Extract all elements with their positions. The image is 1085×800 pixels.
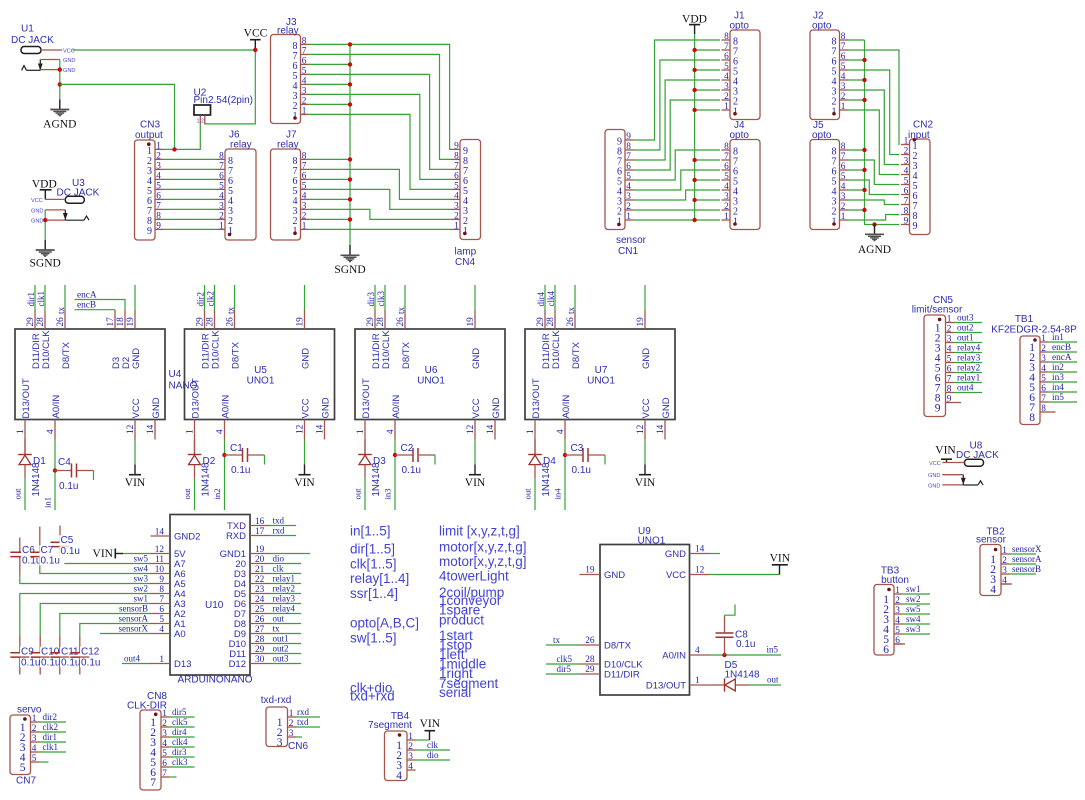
svg-text:3: 3 [156, 161, 161, 171]
mcu U7 pin 12 VCC [636, 398, 652, 439]
svg-text:relay4: relay4 [273, 604, 296, 614]
connector J3 pin 7 [293, 46, 310, 62]
capacitor C7 value label [40, 556, 65, 566]
connector J5 pin 8 [832, 142, 849, 158]
wire CN5 pin 8 net out4 [954, 392, 982, 394]
svg-text:2: 2 [454, 211, 459, 221]
wire J1 pin3 to VDD bus [695, 89, 720, 91]
wire clk5 to U9 pin28 [546, 663, 580, 665]
svg-text:D13/OUT: D13/OUT [531, 378, 542, 418]
svg-text:6: 6 [219, 171, 224, 181]
wire sw5 from C5 [60, 563, 151, 565]
svg-text:5: 5 [904, 177, 909, 187]
svg-text:rxd: rxd [273, 526, 285, 536]
svg-text:GND: GND [31, 219, 43, 225]
connector CN1 pin-1 marker [617, 223, 621, 227]
svg-text:sw1: sw1 [133, 594, 148, 604]
svg-text:8: 8 [1029, 412, 1035, 424]
connector J2 pin 8 [832, 32, 849, 48]
svg-text:motor[x,y,z,t,g]: motor[x,y,z,t,g] [439, 540, 527, 555]
mcu U5 body [185, 329, 335, 420]
connector CN2 pin 4 [901, 167, 918, 183]
mcu U9 pin 28 D10/CLK [580, 655, 644, 671]
svg-text:8: 8 [159, 585, 164, 595]
mcu U10 pin 30 D12 [229, 655, 270, 670]
wire at U6 pin 19 [474, 285, 476, 310]
wire U4 VCC to VIN [134, 440, 136, 465]
connector CN7 pin-1 marker [23, 717, 27, 721]
svg-text:4: 4 [386, 429, 396, 434]
svg-text:0.1u: 0.1u [402, 465, 421, 476]
svg-text:9: 9 [947, 395, 952, 405]
svg-text:25: 25 [255, 605, 265, 615]
svg-text:U10: U10 [205, 600, 224, 611]
svg-text:C3: C3 [571, 443, 584, 454]
wire TB4 pin1 to VIN [416, 739, 430, 741]
power symbol VIN U6 [465, 475, 486, 490]
svg-text:2: 2 [841, 92, 846, 102]
capacitor C7 0.1u [30, 527, 49, 566]
connector J7 pin-1 marker [293, 231, 297, 235]
wire J4 pin4 to CN1 pin3 [634, 190, 721, 200]
wire TB1 pin 6 net in4 [1049, 391, 1078, 393]
svg-text:relay1: relay1 [273, 574, 296, 584]
connector CN4 pin-1 marker [463, 232, 467, 236]
wire TB1 pin 2 net encB [1049, 351, 1078, 353]
wire TB2 pin 1 net sensorX [1010, 553, 1037, 555]
svg-text:dir2: dir2 [196, 292, 206, 307]
mcu U4 pin 18 D2 [116, 310, 132, 369]
svg-text:in5: in5 [1052, 393, 1064, 403]
svg-text:4: 4 [841, 182, 846, 192]
connector J4 pin 6 [722, 162, 739, 178]
wire stub right of C4 [93, 471, 95, 481]
power symbol VIN U7 [635, 475, 656, 490]
svg-text:12: 12 [126, 424, 136, 434]
connector J5 pin 6 [832, 162, 849, 178]
wire CN1 pin1 to J4 pin1 (VDD) [634, 219, 721, 221]
svg-text:1: 1 [733, 217, 738, 228]
wire encB [75, 309, 116, 311]
svg-text:8: 8 [156, 211, 161, 221]
connector CN6 pin 2 [277, 719, 296, 739]
junctions J4 on VDD bus [692, 158, 696, 162]
wire CN5 pin 9 tail [954, 402, 961, 404]
svg-text:txd+rxd: txd+rxd [350, 689, 395, 704]
svg-text:5: 5 [302, 181, 307, 191]
power stem VIN TB4 [429, 731, 431, 740]
wire at U4 pin 28 [44, 285, 46, 310]
svg-text:14: 14 [656, 424, 666, 434]
capacitor C12 0.1u [70, 636, 89, 675]
svg-text:clk3: clk3 [172, 757, 188, 767]
wire rxd at U10 pin17 [270, 535, 296, 537]
mcu U10 pin 11 A7 [151, 555, 186, 570]
wire J2 pin8 to AGND bus [848, 39, 865, 41]
capacitor C4 0.1u [55, 464, 94, 478]
svg-text:3: 3 [277, 737, 283, 749]
connector CN2 pin 5 [901, 177, 918, 193]
wire TB2 pin 3 net sensorB [1010, 573, 1037, 575]
svg-text:4: 4 [302, 191, 307, 201]
svg-text:4: 4 [162, 739, 167, 749]
svg-text:4: 4 [454, 191, 459, 201]
connector J7 relay body [271, 149, 301, 240]
svg-text:5: 5 [20, 762, 26, 774]
mcu U9 pin 1 D13/OUT [646, 676, 710, 692]
wire in3 net at U6 pin4 [394, 440, 396, 511]
wire CN5 pin 7 net relay1 [954, 382, 982, 384]
wire J1 pin2 to CN1 pin6 [634, 100, 721, 170]
wire TB2 pin 2 net sensorA [1010, 563, 1037, 565]
wire out3 at U10 [270, 663, 301, 665]
svg-text:4: 4 [895, 616, 900, 626]
power stem VIN U5 [304, 465, 306, 475]
power symbol VIN U9 [770, 552, 791, 565]
svg-text:3: 3 [895, 606, 900, 616]
wire at U6 pin 26 [404, 285, 406, 310]
wire TB3 pin6 stub [894, 643, 905, 645]
svg-text:2: 2 [302, 211, 307, 221]
dc jack U1 switch contact [22, 60, 43, 71]
svg-text:26: 26 [396, 317, 406, 327]
svg-text:UNO1: UNO1 [587, 376, 615, 387]
mcu U10 pin 26 D8 [234, 615, 270, 630]
svg-text:dio: dio [427, 750, 439, 760]
mcu U10 pin 12 5V [151, 545, 187, 560]
svg-text:sw5: sw5 [906, 604, 921, 614]
svg-text:7: 7 [841, 42, 846, 52]
connector J6 pin 7 [217, 161, 234, 177]
wire CN8 pin 7 stub [170, 776, 177, 778]
svg-text:3: 3 [626, 192, 631, 202]
wire J7 pin6 to SGND bus [309, 178, 351, 180]
svg-text:CN1: CN1 [618, 246, 638, 257]
svg-text:14: 14 [316, 424, 326, 434]
svg-text:opto: opto [812, 130, 832, 141]
svg-text:GND: GND [63, 58, 75, 64]
mcu U4 pin 12 VCC [126, 398, 142, 439]
svg-text:clk1: clk1 [36, 291, 46, 307]
wire VDD bus [694, 34, 696, 220]
svg-text:txd-rxd: txd-rxd [261, 695, 292, 706]
wire J2 pin3 to CN2 pin3 [848, 90, 900, 165]
svg-text:1: 1 [1041, 334, 1046, 344]
svg-text:clk: clk [427, 740, 438, 750]
connector TB2 sensor body [980, 545, 1001, 596]
svg-text:5: 5 [1041, 374, 1046, 384]
connector CN6 pin 3 [277, 729, 296, 749]
svg-text:VIN: VIN [420, 718, 441, 730]
svg-text:3: 3 [302, 86, 307, 96]
wire sw3 from C6 [20, 575, 151, 584]
svg-text:1: 1 [186, 429, 196, 434]
svg-text:U1: U1 [21, 24, 34, 35]
svg-text:C5: C5 [61, 535, 74, 546]
connector CN2 pin 2 [901, 147, 918, 163]
mcu U6 pin 29 D11/DIR [366, 310, 382, 369]
svg-text:VIN: VIN [635, 477, 656, 489]
wire stub right of C2 [434, 455, 436, 465]
svg-text:5: 5 [32, 754, 37, 764]
junctions J7 bus [348, 157, 352, 161]
wire encA [75, 300, 126, 311]
svg-text:clk2: clk2 [43, 722, 59, 732]
connector CN7 servo body [10, 715, 31, 775]
svg-text:4: 4 [724, 182, 729, 192]
connector TB2 pin 2 [990, 556, 1009, 576]
svg-text:1N4148: 1N4148 [541, 463, 552, 497]
svg-text:VCC: VCC [300, 398, 311, 418]
svg-text:opto[A,B,C]: opto[A,B,C] [350, 616, 419, 631]
svg-text:5: 5 [159, 615, 164, 625]
dc jack U1 pin GND upper [40, 59, 60, 61]
svg-text:tx: tx [273, 624, 281, 634]
svg-text:9: 9 [159, 575, 164, 585]
svg-text:in5: in5 [767, 645, 779, 655]
wire CN6 pin 2 net txd [296, 726, 320, 728]
svg-text:D12: D12 [229, 659, 246, 670]
connector CN8 pin 5 [150, 749, 169, 769]
svg-text:0.1u: 0.1u [61, 546, 80, 557]
svg-text:clk[1..5]: clk[1..5] [350, 557, 397, 572]
svg-text:2: 2 [724, 202, 729, 212]
mcu U10 pin 28 D10 [229, 635, 270, 650]
wire J5 pin4 to AGND bus [848, 189, 865, 191]
capacitor C9 0.1u [10, 636, 29, 675]
wire J2 pin4 to AGND bus [848, 79, 865, 81]
svg-text:1: 1 [841, 212, 846, 222]
svg-text:3: 3 [724, 192, 729, 202]
connector J6 relay body [225, 149, 256, 240]
wire J2 pin1 to CN2 pin4 [848, 110, 900, 175]
junction C1 tap [222, 453, 226, 457]
wire J3 pin8 to CN4 pin9 [309, 44, 452, 149]
wire out2 at U10 [270, 653, 301, 655]
svg-text:19: 19 [255, 545, 265, 555]
wire J3 pin5 to CN4 pin7 [309, 74, 452, 169]
diode D4 1N4148 [528, 440, 542, 479]
svg-text:6: 6 [454, 171, 459, 181]
svg-text:2: 2 [289, 719, 294, 729]
svg-text:in1: in1 [1052, 333, 1064, 343]
svg-text:3: 3 [302, 201, 307, 211]
mcu U10 pin 25 D7 [234, 605, 270, 620]
wire AGND branch to CN3 pin1 column [60, 84, 175, 149]
svg-text:4: 4 [216, 429, 226, 434]
svg-text:29: 29 [366, 317, 376, 327]
wire VIN to U10 5V [123, 553, 151, 555]
mcu U10 pin 27 D9 [234, 625, 270, 640]
diode D2 1N4148 [188, 440, 202, 479]
wire at U5 pin 29 [204, 285, 206, 310]
wire CN7 pin 3 net dir1 [39, 741, 66, 743]
wire J3 pin2 to SGND bus [309, 103, 351, 105]
connector CN1 pin 7 [617, 152, 634, 168]
connector CN1 pin 8 [617, 142, 634, 158]
svg-text:C1: C1 [230, 443, 243, 454]
svg-text:6: 6 [162, 759, 167, 769]
svg-text:6: 6 [159, 605, 164, 615]
connector CN1 pin 5 [617, 172, 634, 188]
svg-text:A0: A0 [174, 629, 186, 640]
svg-text:16: 16 [255, 517, 265, 527]
dc jack U1 pin GND lower [40, 69, 60, 71]
connector CN4 pin 5 [452, 181, 469, 197]
svg-text:A0/IN: A0/IN [561, 395, 572, 419]
svg-text:C11: C11 [61, 647, 79, 658]
svg-text:4: 4 [841, 72, 846, 82]
connector CN3 pin 5 [147, 181, 164, 197]
svg-text:sw3: sw3 [906, 624, 921, 634]
power symbol VIN U5 [294, 475, 315, 490]
svg-text:8: 8 [454, 151, 459, 161]
junctions J2 on AGND bus [862, 58, 866, 62]
svg-text:22: 22 [255, 575, 265, 585]
connector TB3 button body [874, 585, 894, 656]
wire TB3 pin 1 net sw1 [903, 593, 931, 595]
svg-text:encB: encB [77, 301, 96, 311]
svg-text:8: 8 [947, 385, 952, 395]
mcu U5 pin 29 D11/DIR [196, 310, 212, 369]
svg-text:1: 1 [841, 102, 846, 112]
wire CN7 pin 4 net clk1 [39, 751, 66, 753]
connector J6 pin-1 marker [228, 233, 232, 237]
svg-text:out4: out4 [957, 384, 974, 394]
connector CN4 lamp body [460, 140, 481, 240]
connector CN1 pin 1 [617, 212, 634, 228]
svg-text:relay: relay [230, 140, 252, 151]
mcu U10 body [170, 515, 250, 676]
wire out net below D4 [534, 479, 536, 510]
connector J5 opto body [810, 140, 840, 230]
svg-text:3: 3 [162, 729, 167, 739]
ground stem SGND left [44, 240, 46, 250]
connector CN1 sensor body [605, 130, 625, 230]
svg-text:GND: GND [63, 68, 75, 74]
svg-text:VCC: VCC [131, 398, 142, 418]
svg-text:sensorA: sensorA [1012, 554, 1042, 564]
dc jack U8 switch contact [962, 475, 983, 485]
svg-text:A0/IN: A0/IN [51, 395, 62, 419]
wire CN5 pin 6 net relay2 [954, 372, 982, 374]
svg-text:1: 1 [724, 212, 729, 222]
svg-text:6: 6 [1041, 384, 1046, 394]
svg-text:3: 3 [454, 201, 459, 211]
svg-text:in2: in2 [212, 488, 222, 499]
wire CN8 pin 4 net clk4 [170, 746, 195, 748]
mcu U6 pin 26 D8/TX [396, 310, 412, 369]
svg-text:6: 6 [626, 162, 631, 172]
wire J2 pin7 to CN2 pin1 [848, 50, 900, 145]
svg-text:sensor: sensor [976, 535, 1007, 546]
svg-text:opto: opto [730, 130, 750, 141]
mcu U6 pin 4 A0/IN [386, 395, 402, 440]
svg-text:5: 5 [302, 66, 307, 76]
connector TB1 pin-1 marker [1033, 338, 1037, 342]
mcu U5 pin 19 GND [296, 310, 312, 369]
wire tx to U9 pin26 [546, 644, 580, 646]
svg-text:output: output [135, 130, 163, 141]
svg-text:clk: clk [273, 564, 284, 574]
svg-text:5: 5 [947, 355, 952, 365]
capacitor C10 value label [40, 658, 65, 668]
svg-text:8: 8 [841, 32, 846, 42]
wire relay4 at U10 [270, 613, 301, 615]
wire VCC net from U1 to VCC rail [62, 49, 255, 51]
svg-text:19: 19 [126, 317, 136, 327]
wire dir5 to U9 pin29 [546, 673, 580, 675]
svg-text:2: 2 [156, 151, 161, 161]
svg-text:DC JACK: DC JACK [11, 35, 54, 46]
svg-text:tx: tx [396, 306, 406, 314]
svg-text:5: 5 [841, 172, 846, 182]
dc jack U1 pin VCC [41, 49, 62, 51]
svg-text:relay: relay [277, 140, 299, 151]
wire J7 pin4 to SGND bus [309, 198, 351, 200]
svg-text:21: 21 [255, 565, 265, 575]
dc jack U1 barrel [21, 47, 41, 54]
dc jack U8 pin VCC [942, 462, 964, 464]
svg-text:7segment: 7segment [368, 720, 412, 731]
wire AGND bus right [865, 40, 900, 225]
wire J3 pin1 to CN4 pin5 [309, 114, 452, 189]
svg-text:D13/OUT: D13/OUT [21, 378, 32, 418]
ground stem SGND bus [349, 245, 351, 255]
wire at U4 pin 19 [134, 285, 136, 310]
svg-text:5: 5 [841, 62, 846, 72]
wire J1 pin8 to CN1 pin9 [634, 40, 721, 140]
svg-text:sw4: sw4 [906, 614, 921, 624]
mcu U5 pin 28 D10/CLK [206, 310, 222, 369]
svg-text:20: 20 [255, 555, 265, 565]
svg-text:1: 1 [159, 655, 164, 665]
svg-text:in3: in3 [383, 488, 393, 499]
junction at U1 GND pins [58, 67, 62, 71]
svg-text:clk1: clk1 [43, 742, 59, 752]
connector CN3 pin 2 [147, 151, 164, 167]
svg-text:SGND: SGND [30, 258, 61, 270]
connector J7 pin 8 [293, 151, 310, 167]
mcu U4 pin 14 GND [146, 397, 162, 439]
capacitor C9 value label [20, 658, 45, 668]
svg-text:U4: U4 [169, 369, 182, 380]
svg-text:D8/TX: D8/TX [230, 341, 241, 369]
svg-text:dir2: dir2 [43, 712, 58, 722]
svg-text:D13/OUT: D13/OUT [361, 378, 372, 418]
junction AGND stem right [872, 222, 876, 226]
svg-text:9: 9 [626, 132, 631, 142]
pin name GND on U1 (1) [62, 58, 72, 63]
svg-text:3: 3 [219, 201, 224, 211]
svg-text:1: 1 [695, 676, 700, 686]
wire in4 net at U7 pin4 [564, 440, 566, 511]
connector CN4 pin 2 [452, 211, 469, 227]
svg-text:9: 9 [454, 141, 459, 151]
connector CN7 pin 2 [20, 724, 39, 744]
mcu U10 pin 22 D4 [234, 575, 270, 590]
connector J1 pin 7 [722, 42, 739, 58]
svg-text:GND: GND [928, 483, 940, 489]
svg-text:CN3: CN3 [140, 120, 160, 131]
svg-text:C9: C9 [21, 647, 34, 658]
connector TB4 pin 4 [396, 762, 415, 782]
wire U2 pin1 to CN3 pin1 [164, 124, 201, 149]
svg-text:out2: out2 [273, 644, 289, 654]
svg-text:1: 1 [463, 226, 468, 237]
svg-text:1N4148: 1N4148 [371, 463, 382, 497]
wire J1 pin5 to VDD bus [695, 69, 720, 71]
